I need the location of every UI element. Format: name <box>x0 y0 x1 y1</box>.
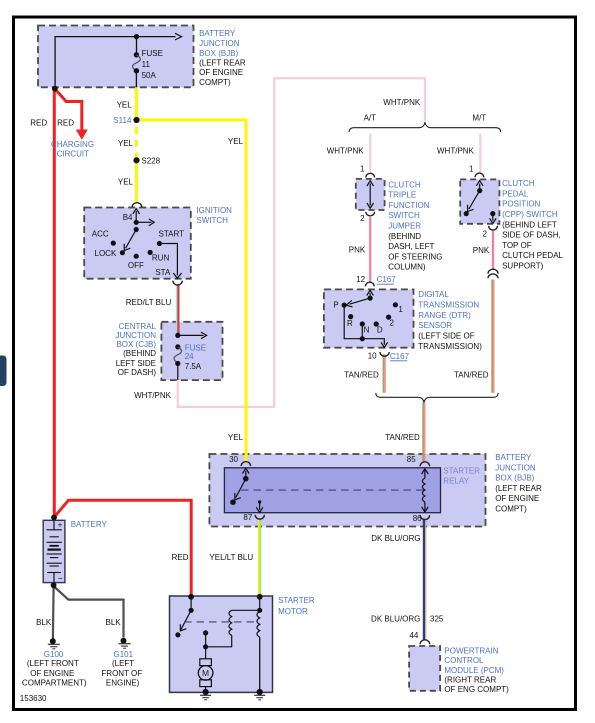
svg-text:1: 1 <box>469 164 474 173</box>
diagram number 153630 <box>20 694 47 703</box>
label splice S228 <box>141 156 160 165</box>
starter motor box <box>170 596 273 692</box>
svg-text:D: D <box>377 326 383 335</box>
label RED wires at top <box>30 119 74 128</box>
ground G101 node and symbol <box>119 638 131 649</box>
svg-text:SENSOR: SENSOR <box>418 321 452 330</box>
wire YEL S114 dashed segment to S228 <box>135 127 138 158</box>
svg-text:POWERTRAIN: POWERTRAIN <box>444 647 498 656</box>
pin 1 clutch jumper <box>360 164 365 173</box>
svg-text:BLK: BLK <box>106 618 122 627</box>
battery symbol plates <box>47 520 62 583</box>
label BATTERY <box>71 520 108 529</box>
svg-text:YEL: YEL <box>118 178 134 187</box>
pin 2 CPP switch <box>482 230 487 239</box>
label PNK A/T branch <box>349 245 366 254</box>
svg-text:COMPT): COMPT) <box>495 505 527 514</box>
svg-text:SWITCH: SWITCH <box>388 211 420 220</box>
connector bump at clutch jumper pin 1 <box>366 173 375 177</box>
starter motor solenoid node from YEL/LT BLU wire <box>257 594 263 600</box>
pin 12 DTR <box>356 275 365 284</box>
svg-text:COMPARTMENT): COMPARTMENT) <box>22 679 87 688</box>
svg-text:325: 325 <box>430 614 444 623</box>
svg-text:A/T: A/T <box>364 113 377 122</box>
battery minus sign <box>58 574 63 584</box>
splice S114 node <box>133 117 139 123</box>
svg-text:IGNITION: IGNITION <box>196 206 232 215</box>
svg-text:TRANSMISSION): TRANSMISSION) <box>418 342 482 351</box>
svg-text:CLUTCH PEDAL: CLUTCH PEDAL <box>502 251 563 260</box>
label fuse F24 <box>185 343 206 371</box>
label charging circuit <box>51 140 94 158</box>
powertrain control module PCM box <box>409 646 440 691</box>
motor M symbol <box>198 659 213 692</box>
svg-text:TAN/RED: TAN/RED <box>454 370 489 379</box>
label clutch triple function switch jumper <box>388 180 442 271</box>
svg-text:RED: RED <box>172 553 189 562</box>
label starter motor <box>278 596 315 616</box>
relay pin 87 <box>243 513 252 522</box>
label YEL branch to relay <box>228 137 244 146</box>
battery positive terminal node <box>51 515 57 521</box>
svg-text:24: 24 <box>185 352 194 361</box>
svg-text:TAN/RED: TAN/RED <box>344 370 379 379</box>
svg-text:CHARGING: CHARGING <box>51 140 94 149</box>
label WHT/PNK M/T branch <box>437 147 475 156</box>
pin 1 CPP switch <box>469 164 474 173</box>
svg-text:START: START <box>159 229 185 238</box>
svg-text:RELAY: RELAY <box>443 477 469 486</box>
svg-text:LEFT SIDE: LEFT SIDE <box>116 359 156 368</box>
svg-text:OF ENG COMPT): OF ENG COMPT) <box>444 685 509 694</box>
svg-text:FRONT OF: FRONT OF <box>101 669 142 678</box>
wire TAN/RED from inline connector down to brace <box>492 280 494 393</box>
label WHT/PNK A/T branch <box>327 147 365 156</box>
ignition switch rotor arm to LOCK <box>124 227 139 251</box>
svg-text:MOTOR: MOTOR <box>278 607 308 616</box>
label BLK wires <box>36 618 121 627</box>
svg-text:(RIGHT REAR: (RIGHT REAR <box>444 676 496 685</box>
ignition switch position labels <box>92 213 184 277</box>
label splice S114 <box>113 116 132 125</box>
svg-text:86: 86 <box>413 514 422 523</box>
svg-text:RED: RED <box>57 119 74 128</box>
svg-text:YEL: YEL <box>118 139 134 148</box>
label ground G101 <box>101 650 142 688</box>
svg-text:YEL: YEL <box>117 101 133 110</box>
svg-text:85: 85 <box>407 455 416 464</box>
svg-text:SWITCH: SWITCH <box>196 216 228 225</box>
label battery junction box BJB (top) <box>199 29 246 87</box>
wire WHT/PNK from CJB fuse 24 up and over to A/T-M/T brace <box>178 78 425 407</box>
starter motor ground node right <box>254 689 265 700</box>
svg-text:DK BLU/ORG: DK BLU/ORG <box>371 614 420 623</box>
svg-text:JUNCTION: JUNCTION <box>495 463 536 472</box>
label M/T <box>472 113 486 122</box>
wire BLK battery negative to G101 <box>55 587 124 638</box>
svg-text:P: P <box>333 301 338 310</box>
label PNK M/T branch <box>473 246 490 255</box>
svg-text:2: 2 <box>360 214 365 223</box>
svg-text:−: − <box>58 574 63 584</box>
svg-text:44: 44 <box>409 631 418 640</box>
starter motor feed node from RED wire <box>188 594 194 600</box>
connector bump at relay pin 30 <box>241 462 250 466</box>
label powertrain control module PCM <box>444 647 509 694</box>
svg-text:S228: S228 <box>141 156 160 165</box>
svg-text:OF STEERING: OF STEERING <box>388 252 442 261</box>
label WHT/PNK top <box>383 98 421 107</box>
wire RED battery feed from BJB <box>53 89 56 517</box>
label WHT/PNK below CJB <box>134 391 172 400</box>
connector bump at ignition switch B4 input <box>132 203 142 207</box>
svg-text:COMPT): COMPT) <box>199 78 231 87</box>
label YEL/LT BLU <box>209 553 253 562</box>
svg-text:BATTERY: BATTERY <box>71 520 108 529</box>
brace joining TAN/RED wires <box>376 393 498 403</box>
svg-text:FUNCTION: FUNCTION <box>388 201 430 210</box>
svg-text:LOCK: LOCK <box>95 249 117 258</box>
inline connector C167 pass-through on M/T branch <box>488 269 498 278</box>
svg-text:MODULE (PCM): MODULE (PCM) <box>444 666 504 675</box>
battery negative terminal node <box>51 582 57 588</box>
node at BJB bottom feeding RED wires <box>52 86 58 92</box>
pin 2 clutch jumper <box>360 214 365 223</box>
wire PNK CPP pin 2 to inline connector <box>492 231 494 270</box>
connector bump at relay pin 87 <box>255 515 264 519</box>
svg-text:DIGITAL: DIGITAL <box>418 290 449 299</box>
svg-text:CLUTCH: CLUTCH <box>502 179 535 188</box>
connector bump at DTR pin 12 <box>365 282 374 286</box>
svg-text:BOX (BJB): BOX (BJB) <box>199 49 238 58</box>
svg-text:JUNCTION: JUNCTION <box>199 39 240 48</box>
starter motor switch contact <box>175 597 193 638</box>
wire WHT/PNK A/T branch <box>369 134 371 173</box>
svg-text:G101: G101 <box>114 650 134 659</box>
battery junction box BJB (starter relay) <box>209 454 485 527</box>
svg-text:YEL: YEL <box>228 433 244 442</box>
label DK BLU/ORG below relay <box>371 534 420 543</box>
wire YEL/LT BLU relay pin 87 to starter motor <box>259 519 261 596</box>
svg-text:JUNCTION: JUNCTION <box>116 331 157 340</box>
ignition switch box <box>84 208 191 279</box>
svg-text:RED/LT BLU: RED/LT BLU <box>126 298 172 307</box>
svg-text:2: 2 <box>482 230 487 239</box>
svg-text:OF ENGINE: OF ENGINE <box>495 494 539 503</box>
svg-text:(LEFT SIDE OF: (LEFT SIDE OF <box>418 332 474 341</box>
svg-text:SUPPORT): SUPPORT) <box>502 262 544 271</box>
svg-text:1: 1 <box>360 164 365 173</box>
svg-text:PNK: PNK <box>473 246 490 255</box>
svg-text:JUMPER: JUMPER <box>388 222 421 231</box>
svg-text:FUSE: FUSE <box>185 343 206 352</box>
relay pin 85 <box>407 455 416 464</box>
label A/T <box>364 113 377 122</box>
label RED near starter motor <box>172 553 189 562</box>
connector bump at relay pin 85 <box>420 462 429 466</box>
label battery junction box BJB (relay) <box>495 453 542 514</box>
DTR position labels <box>333 301 403 335</box>
svg-text:(BEHIND: (BEHIND <box>123 349 156 358</box>
connector bump at relay pin 86 <box>420 515 429 519</box>
svg-text:TAN/RED: TAN/RED <box>385 433 420 442</box>
svg-text:RED: RED <box>30 119 47 128</box>
svg-text:10: 10 <box>368 352 377 361</box>
svg-text:OF ENGINE: OF ENGINE <box>199 68 243 77</box>
wire YEL fuse 11 to S114 <box>135 87 138 118</box>
wire TAN/RED brace to relay pin 85 <box>423 403 425 463</box>
battery box <box>43 520 65 582</box>
relay pin 30 <box>229 455 238 464</box>
svg-text:POSITION: POSITION <box>502 200 540 209</box>
brace splitting WHT/PNK to A/T and M/T <box>349 122 500 132</box>
svg-text:M: M <box>202 668 209 678</box>
svg-text:1: 1 <box>398 305 403 314</box>
svg-text:RANGE (DTR): RANGE (DTR) <box>418 311 471 320</box>
svg-text:OF ENGINE: OF ENGINE <box>30 669 74 678</box>
connector C167 top label <box>377 275 397 284</box>
clutch triple function switch jumper box <box>356 179 385 210</box>
svg-text:50A: 50A <box>142 71 157 80</box>
connector bump at DTR pin 10 <box>380 352 389 356</box>
CPP switch internals <box>464 181 497 224</box>
clutch pedal position CPP switch box <box>460 179 499 223</box>
svg-text:DASH, LEFT: DASH, LEFT <box>388 242 434 251</box>
starter relay switch contact <box>230 468 249 505</box>
splice S228 node <box>133 157 139 163</box>
svg-text:M/T: M/T <box>472 113 486 122</box>
wire YEL S228 to ignition switch B4 <box>135 163 138 203</box>
label ignition switch <box>196 206 232 225</box>
svg-text:153630: 153630 <box>20 694 47 703</box>
connector bump at clutch jumper pin 2 <box>366 212 375 216</box>
svg-text:12: 12 <box>356 275 365 284</box>
svg-text:TRIPLE: TRIPLE <box>388 191 416 200</box>
svg-text:WHT/PNK: WHT/PNK <box>134 391 172 400</box>
wire RED battery to starter motor <box>54 500 191 596</box>
svg-text:ENGINE): ENGINE) <box>106 679 140 688</box>
svg-text:(LEFT: (LEFT <box>112 659 134 668</box>
ignition switch START to STA output wire <box>159 244 181 279</box>
svg-text:STARTER: STARTER <box>443 467 480 476</box>
svg-text:(LEFT REAR: (LEFT REAR <box>199 58 246 67</box>
svg-text:TRANSMISSION: TRANSMISSION <box>418 300 479 309</box>
starter motor contact and feed to motor M <box>203 630 208 658</box>
fuse F24 7.5A symbol <box>174 344 182 380</box>
starter relay inner box <box>224 468 440 513</box>
wire DK BLU/ORG relay pin 86 to PCM pin 44 <box>424 519 426 641</box>
label TAN/RED left <box>344 370 379 379</box>
svg-text:(BEHIND: (BEHIND <box>388 232 421 241</box>
svg-text:STARTER: STARTER <box>278 596 315 605</box>
svg-text:WHT/PNK: WHT/PNK <box>383 98 421 107</box>
svg-text:CIRCUIT: CIRCUIT <box>57 150 90 159</box>
svg-text:CLUTCH: CLUTCH <box>388 180 421 189</box>
starter motor ground node left <box>200 689 211 700</box>
svg-text:11: 11 <box>142 60 151 69</box>
svg-text:BATTERY: BATTERY <box>495 453 532 462</box>
connector bump at CPP switch pin 2 <box>489 226 498 230</box>
label TAN/RED center <box>385 433 420 442</box>
starter relay pin 87 output arrow <box>256 500 263 512</box>
svg-text:+: + <box>58 520 63 530</box>
ignition switch position contacts <box>111 241 162 259</box>
battery plus sign <box>58 520 63 530</box>
connector bump at CPP switch pin 1 <box>475 173 484 177</box>
svg-text:R: R <box>347 319 353 328</box>
svg-text:C167: C167 <box>390 352 410 361</box>
BJB internal bus wire with arrow <box>55 33 182 88</box>
clutch jumper internal double-ended arrow <box>367 181 374 208</box>
svg-text:(BEHIND LEFT: (BEHIND LEFT <box>502 220 557 229</box>
label fuse F11 <box>142 49 163 80</box>
svg-text:BATTERY: BATTERY <box>199 29 236 38</box>
label starter relay <box>443 467 480 486</box>
wire PNK jumper pin 2 to C167 pin 12 <box>369 217 371 282</box>
svg-text:BOX (CJB): BOX (CJB) <box>116 340 156 349</box>
wire BLK battery negative to G100 <box>52 587 55 639</box>
fuse F11 50A symbol <box>133 34 141 87</box>
battery junction box BJB (top) <box>38 26 194 88</box>
svg-text:YEL: YEL <box>228 137 244 146</box>
label RED/LT BLU <box>126 298 172 307</box>
svg-text:CONTROL: CONTROL <box>444 656 484 665</box>
svg-text:COLUMN): COLUMN) <box>388 263 426 272</box>
PCM pin 44 <box>409 631 418 640</box>
svg-text:DK BLU/ORG: DK BLU/ORG <box>371 534 420 543</box>
DTR sensor internals <box>342 290 398 347</box>
label central junction box CJB <box>116 322 157 377</box>
svg-text:PNK: PNK <box>349 245 366 254</box>
digital transmission range DTR sensor box <box>324 289 414 347</box>
label clutch pedal position switch <box>502 179 563 270</box>
ground G100 node and symbol <box>48 638 60 649</box>
label YEL above relay <box>228 433 244 442</box>
svg-text:(CPP) SWITCH: (CPP) SWITCH <box>502 210 558 219</box>
svg-text:FUSE: FUSE <box>142 49 163 58</box>
connector bump at ignition STA output <box>173 281 182 285</box>
svg-text:BOX (BJB): BOX (BJB) <box>495 474 534 483</box>
connector C167 bottom label <box>390 352 410 361</box>
svg-text:STA: STA <box>155 268 171 277</box>
label DK BLU/ORG near PCM with circuit 325 <box>371 614 444 623</box>
svg-text:G100: G100 <box>44 650 64 659</box>
pin 10 DTR <box>368 352 377 361</box>
label TAN/RED right <box>454 370 489 379</box>
svg-text:ACC: ACC <box>92 230 109 239</box>
svg-text:7.5A: 7.5A <box>185 362 202 371</box>
relay pin 86 <box>413 514 422 523</box>
svg-text:S114: S114 <box>113 116 132 125</box>
central junction box CJB <box>161 322 222 380</box>
svg-text:TOP OF: TOP OF <box>502 241 532 250</box>
starter solenoid pull-in winding <box>208 610 260 647</box>
label YEL segments left <box>117 101 134 187</box>
svg-text:B4: B4 <box>123 213 133 222</box>
wire WHT/PNK M/T branch <box>479 134 481 173</box>
svg-text:BLK: BLK <box>36 618 52 627</box>
starter motor linkage dashed line <box>184 621 257 623</box>
ignition switch B4 terminal arrows <box>133 209 154 226</box>
svg-text:(LEFT REAR: (LEFT REAR <box>495 484 542 493</box>
wire RED/LT BLU ignition STA to CJB <box>177 285 179 336</box>
wire RED to charging circuit <box>56 90 88 140</box>
svg-text:RUN: RUN <box>152 253 170 262</box>
svg-text:30: 30 <box>229 455 238 464</box>
svg-text:87: 87 <box>243 513 252 522</box>
label DTR sensor <box>418 290 482 351</box>
wire TAN/RED DTR pin 10 to brace <box>384 354 386 392</box>
svg-text:N: N <box>364 326 370 335</box>
connector bump at PCM pin 44 <box>420 640 430 644</box>
svg-text:PEDAL: PEDAL <box>502 189 529 198</box>
svg-text:2: 2 <box>390 318 395 327</box>
wire YEL S114 to starter relay pin 30 <box>138 120 246 462</box>
CJB internal node and arrow <box>175 332 206 339</box>
starter relay coil <box>422 469 429 512</box>
starter relay mechanical linkage dashed line <box>241 489 425 491</box>
svg-text:C167: C167 <box>377 275 397 284</box>
svg-text:SIDE OF DASH,: SIDE OF DASH, <box>502 231 561 240</box>
starter solenoid hold-in winding <box>257 597 262 692</box>
svg-text:OF DASH): OF DASH) <box>118 368 157 377</box>
left edge navy tab <box>0 356 7 387</box>
svg-text:YEL/LT BLU: YEL/LT BLU <box>209 553 253 562</box>
svg-text:WHT/PNK: WHT/PNK <box>437 147 475 156</box>
svg-text:OFF: OFF <box>128 261 144 270</box>
svg-text:(LEFT FRONT: (LEFT FRONT <box>27 659 79 668</box>
label ground G100 <box>22 650 87 688</box>
svg-text:WHT/PNK: WHT/PNK <box>327 147 365 156</box>
